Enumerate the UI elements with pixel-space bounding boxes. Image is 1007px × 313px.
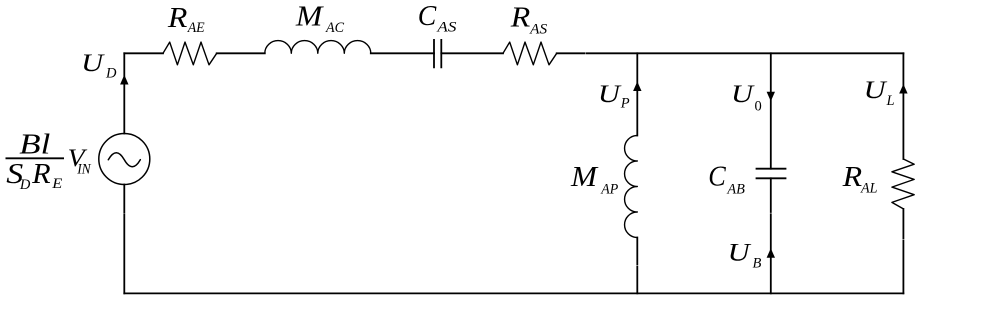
capacitor C_AB plates (757, 169, 786, 179)
label source V_IN (68, 143, 92, 178)
source V_IN sine symbol (108, 153, 140, 167)
label R_AS value (510, 3, 548, 38)
wire top rail between C_AS and R_AS (441, 52, 503, 54)
resistor R_AL zigzag (892, 159, 914, 209)
svg-text:R: R (510, 3, 531, 34)
svg-text:U: U (81, 48, 105, 77)
svg-text:0: 0 (755, 99, 762, 115)
svg-text:IN: IN (76, 161, 92, 177)
label R_AE value (167, 3, 205, 36)
svg-text:AP: AP (600, 182, 618, 198)
label source gain denominator S_D R_E (6, 159, 62, 193)
wire C_AB branch lower with small break (770, 178, 772, 293)
svg-text:D: D (105, 66, 117, 82)
label source gain numerator Bl (19, 130, 50, 161)
label C_AS value (418, 1, 458, 35)
svg-text:E: E (51, 176, 62, 192)
label node U_L (864, 75, 895, 109)
wire top rail between R_AE and M_AC (217, 52, 265, 54)
inductor M_AC coil (265, 41, 371, 54)
svg-text:AS: AS (529, 22, 548, 38)
svg-text:AC: AC (325, 20, 344, 36)
wire top rail right of R_AS with small break (557, 52, 904, 54)
label C_AB value (708, 161, 745, 197)
arrow U_D current arrow up on left branch (120, 75, 128, 85)
wire left branch lower with small break (123, 185, 125, 294)
label node U_D (81, 48, 117, 82)
arrow U_0 arrow down on C_AB branch (767, 92, 775, 102)
wire top rail between M_AC and C_AS (371, 52, 434, 54)
svg-text:U: U (728, 237, 752, 266)
wire right branch upper (902, 53, 904, 159)
wire M_AP branch upper (636, 53, 638, 135)
svg-text:C: C (418, 1, 437, 32)
label M_AP value (570, 162, 619, 198)
label R_AL value (841, 162, 877, 197)
source V_IN circle (99, 134, 150, 185)
fraction bar of source gain (6, 157, 65, 159)
svg-text:M: M (295, 2, 325, 33)
inductor M_AP coil (625, 136, 638, 238)
resistor R_AS zigzag (503, 42, 557, 65)
arrow U_P arrow up on M_AP branch (633, 82, 641, 92)
wire left branch upper (123, 53, 125, 133)
arrow U_B arrow up on C_AB branch (767, 248, 775, 257)
wire M_AP branch lower with small break (636, 238, 638, 294)
svg-text:C: C (708, 161, 726, 192)
svg-text:Bl: Bl (19, 130, 50, 161)
label node U_P (598, 79, 630, 112)
wire C_AB branch upper (770, 53, 772, 168)
svg-text:R: R (841, 162, 862, 193)
arrow U_L arrow up on right branch (899, 84, 907, 94)
svg-text:AE: AE (187, 20, 205, 36)
svg-text:R: R (31, 159, 51, 190)
resistor R_AE zigzag (163, 42, 217, 65)
label M_AC value (295, 2, 345, 37)
wire top rail left segment (124, 52, 163, 54)
svg-text:AS: AS (436, 19, 457, 35)
capacitor C_AS plates (434, 40, 441, 68)
svg-text:AL: AL (860, 181, 877, 197)
svg-text:L: L (886, 93, 895, 109)
wire bottom rail (124, 292, 903, 294)
svg-text:U: U (864, 75, 888, 104)
svg-text:M: M (570, 162, 599, 193)
svg-text:R: R (167, 3, 188, 34)
wire right branch lower with small break (902, 209, 904, 294)
label node U_B (728, 237, 762, 271)
svg-text:B: B (753, 255, 762, 271)
svg-text:D: D (19, 177, 31, 193)
svg-text:U: U (731, 79, 755, 108)
svg-text:U: U (598, 79, 622, 108)
label node U_0 (731, 79, 762, 115)
svg-text:AB: AB (726, 181, 745, 197)
svg-text:P: P (620, 96, 630, 112)
